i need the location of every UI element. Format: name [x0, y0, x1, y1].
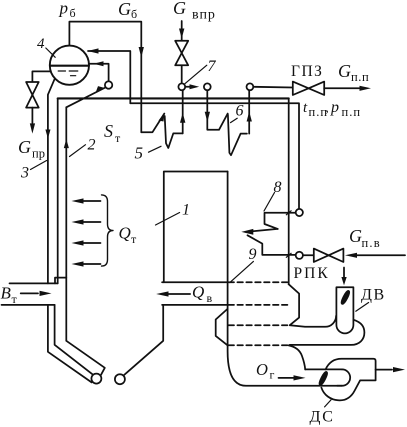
- Qt heat arrows: [83, 200, 101, 202]
- wire: feedwater supply line: [356, 254, 405, 256]
- svg-text:Q: Q: [192, 283, 204, 302]
- arrow right Og: [294, 375, 306, 380]
- node circle: coil 6 inlet: [204, 83, 211, 90]
- svg-text:Q: Q: [119, 224, 131, 243]
- wire: main steam line: [253, 86, 292, 89]
- arrow up coil6 outlet: [247, 112, 252, 122]
- label tick 7: [184, 65, 207, 84]
- wire: DS intake bottom wall joins duct: [337, 385, 342, 387]
- wire: right hopper wall: [124, 305, 164, 376]
- svg-text:б: б: [131, 7, 137, 21]
- superheater coil 6 zigzag: [207, 90, 227, 130]
- svg-text:p: p: [330, 99, 339, 116]
- injection valve 7: [175, 41, 188, 53]
- arrow down blowdown Gpr: [30, 123, 35, 133]
- label tick 8: [264, 193, 275, 212]
- fan DS blade: [318, 371, 328, 386]
- wire: air duct lower line: [162, 304, 228, 306]
- arrow right Bt: [40, 291, 52, 296]
- arrow down air inlet DV: [341, 277, 346, 285]
- blowdown pipe from drum: [32, 71, 50, 82]
- svg-text:1: 1: [182, 202, 190, 219]
- wire: right wall down: [288, 98, 290, 284]
- svg-text:6: 6: [236, 103, 244, 120]
- wire: riser hopper diagonal: [66, 341, 105, 375]
- wire: DV duct top wall: [290, 316, 336, 327]
- arrow left Qv: [156, 291, 168, 296]
- svg-text:т: т: [12, 292, 18, 306]
- wire: coil 6 outlet riser: [248, 90, 250, 133]
- wire: feed line to valve: [303, 254, 314, 256]
- wire: lower roof line / feedwater run: [130, 103, 299, 209]
- svg-text:t: t: [303, 100, 308, 116]
- svg-text:РПК: РПК: [294, 265, 330, 282]
- DS scroll casing: [321, 359, 375, 401]
- wire: mix line from riser to drum: [90, 64, 109, 82]
- arrow down above injection valve: [179, 29, 184, 39]
- svg-text:p: p: [59, 0, 69, 18]
- wire: steam pipe drum top to Gb: [69, 22, 141, 133]
- arrow left into drum (mixture): [94, 61, 104, 66]
- node circle: attemperator inlet: [178, 83, 185, 90]
- drum water dashes: [58, 71, 78, 76]
- svg-text:пр: пр: [32, 147, 45, 161]
- svg-text:5: 5: [135, 144, 144, 163]
- blowdown valve: [26, 82, 39, 95]
- label tick 3: [31, 161, 47, 170]
- fan DV blade: [340, 290, 350, 305]
- wire: blowdown outlet: [31, 108, 33, 123]
- arrow left into drum top (feedwater): [88, 48, 99, 53]
- svg-text:G: G: [118, 0, 131, 19]
- svg-text:G: G: [349, 226, 362, 246]
- wire: cap between wall and riser: [55, 278, 66, 284]
- wire: air inlet to DV: [343, 268, 345, 279]
- wire: air heater left wall down to flue duct corner: [228, 172, 342, 386]
- svg-text:впр: впр: [192, 8, 216, 23]
- wire: downcomer below burner: [48, 305, 92, 383]
- wire: furnace bottom / air duct top: [162, 281, 228, 283]
- wire: DS intake end cap: [342, 369, 350, 385]
- label tick 1: [156, 213, 180, 226]
- arrow up coil5 outlet: [180, 113, 185, 123]
- wire: left furnace wall: [57, 98, 59, 283]
- wire: DS intake top wall: [305, 368, 342, 370]
- wire: riser diagonal to junction: [66, 87, 105, 107]
- wire: wall below burner: [55, 305, 94, 375]
- wire: injection water line: [181, 21, 183, 41]
- arrow on riser diagonal: [96, 86, 106, 93]
- drum 4: [50, 46, 89, 85]
- svg-text:ДС: ДС: [310, 409, 335, 426]
- wire: burner duct lower line: [2, 304, 55, 306]
- drum water level line: [50, 65, 88, 67]
- svg-text:3: 3: [20, 165, 29, 182]
- svg-text:т: т: [115, 131, 121, 145]
- svg-text:,: ,: [326, 100, 329, 115]
- arrow up-right coil5 apex: [159, 113, 165, 122]
- wire: downcomer 3: [48, 79, 55, 284]
- arrow right DS outlet: [393, 367, 405, 372]
- arrow up on riser: [64, 139, 69, 148]
- svg-text:S: S: [104, 121, 113, 141]
- furnace core rectangle 1: [164, 172, 228, 283]
- wire: coil 5 outlet riser: [182, 90, 184, 133]
- wire: burner duct upper line: [10, 282, 58, 284]
- label tick 2: [70, 145, 86, 157]
- arrow left economizer coil: [241, 229, 253, 235]
- Qv air arrow: [168, 293, 190, 295]
- svg-text:G: G: [18, 137, 31, 157]
- svg-text:B: B: [1, 284, 12, 303]
- wire: upper roof line: [58, 97, 289, 99]
- dashed air heater line 3: [229, 324, 290, 326]
- arrow down on downcomer: [45, 130, 50, 139]
- svg-text:т: т: [131, 232, 137, 246]
- label tick DV: [356, 303, 369, 312]
- svg-text:г: г: [270, 368, 275, 382]
- node junction circle near drum: [105, 81, 112, 88]
- wire: riser tube 2: [65, 107, 67, 340]
- svg-text:2: 2: [88, 137, 96, 154]
- wire: steam out line: [324, 87, 360, 89]
- label tick 4: [46, 48, 55, 57]
- arrowheads: [30, 29, 405, 381]
- svg-text:G: G: [338, 61, 351, 81]
- label tick 6: [231, 118, 238, 122]
- svg-text:ДВ: ДВ: [361, 287, 386, 304]
- Bt fuel arrow: [21, 292, 38, 294]
- svg-text:п.в: п.в: [362, 236, 381, 250]
- node circle: coil 6 outlet: [247, 83, 254, 90]
- arrow right steam out Gpp: [360, 86, 372, 91]
- dashed air heater line 1: [229, 281, 289, 283]
- svg-text:7: 7: [208, 58, 217, 75]
- svg-text:4: 4: [37, 36, 45, 52]
- dashed air heater line 2: [229, 304, 289, 306]
- arrow right attemperator: [190, 84, 200, 89]
- label tick DS: [325, 400, 331, 407]
- wire: feedwater pipe into drum: [88, 51, 130, 103]
- label tick 5: [149, 146, 162, 152]
- valve GPZ: [293, 82, 309, 95]
- node: hopper circle right: [115, 374, 125, 384]
- superheater coil 5 zigzag: [141, 114, 164, 133]
- svg-text:G: G: [173, 0, 186, 18]
- wire: flue duct S-bend into DS: [289, 345, 306, 369]
- economizer coil 8: [265, 213, 296, 229]
- wire: Og arrow line: [279, 377, 295, 379]
- wire: DS outlet line: [376, 369, 392, 371]
- arrow down on Gb line: [139, 47, 144, 58]
- junction tick wall-feed line: [286, 253, 291, 257]
- junction tick wall-economizer outlet: [286, 211, 291, 215]
- node: right bulge of air heater: [289, 284, 300, 325]
- fan DV capsule: [336, 287, 353, 333]
- node: left bulge of air heater: [216, 309, 228, 345]
- node circle: economizer outlet: [296, 209, 303, 216]
- svg-text:8: 8: [274, 179, 282, 196]
- dashed air heater line 4: [229, 344, 289, 346]
- arrows left Qt: [72, 198, 84, 203]
- Qt brace: [102, 195, 114, 266]
- svg-text:п.п: п.п: [351, 70, 369, 84]
- node circle: feed junction: [296, 252, 303, 259]
- svg-text:9: 9: [249, 246, 257, 263]
- node: hopper circle left: [91, 374, 101, 384]
- wire: DV duct bottom wall: [290, 320, 365, 345]
- label tick 9: [230, 261, 254, 282]
- wire: attemperator arrow link: [185, 86, 190, 88]
- arrow down coil6 inlet: [205, 112, 210, 122]
- svg-text:ГПЗ: ГПЗ: [291, 63, 323, 80]
- valve RPK: [314, 249, 329, 262]
- svg-text:б: б: [70, 6, 76, 20]
- svg-text:п.п: п.п: [342, 105, 362, 119]
- arrow left Gpv feed: [345, 253, 357, 258]
- svg-text:O: O: [256, 360, 268, 379]
- svg-text:в: в: [207, 291, 213, 305]
